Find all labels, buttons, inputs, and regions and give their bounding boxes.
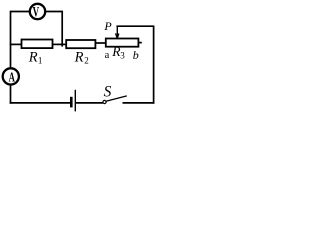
voltmeter V [30,4,45,19]
rheostat slider arrowhead [116,33,118,38]
wire: R2 to R3 lead [95,42,105,44]
battery short plate (-) [70,97,73,108]
svg-text:S: S [104,83,112,100]
wire: voltmeter left lead [11,11,30,13]
wire: bottom right segment [123,102,155,104]
rheostat R3 box [106,39,139,47]
svg-text:A: A [9,69,16,85]
ammeter A [3,68,19,84]
wire: main horizontal lead into R1 [10,43,22,45]
wire: bottom left segment [10,102,70,104]
wire: R3 open stub to b [138,42,141,44]
wire: right vertical [153,26,155,104]
wire: voltmeter right lead [46,11,62,13]
svg-text:P: P [103,19,112,33]
resistor R2 [66,40,95,48]
battery long plate (+) [74,90,76,112]
svg-text:R: R [28,50,38,66]
svg-text:b: b [133,48,139,62]
rheostat slider wire [116,26,118,38]
wire: R1 to R2 lead [53,43,67,45]
svg-text:V: V [33,3,40,20]
svg-text:1: 1 [38,56,43,66]
svg-text:a: a [105,50,110,61]
resistor R1 [22,40,53,49]
wire: slider top wire [116,25,154,27]
wire: battery to switch [76,102,103,104]
wire: left vertical (bottom section) [10,85,12,104]
wire: left vertical (top section) [10,11,12,68]
svg-text:2: 2 [84,56,89,66]
svg-text:3: 3 [120,51,125,61]
wire: voltmeter right vertical down to R1-R2 node [61,11,63,47]
svg-text:R: R [74,50,84,66]
switch S lever [106,96,127,101]
switch pivot circle [103,100,106,103]
